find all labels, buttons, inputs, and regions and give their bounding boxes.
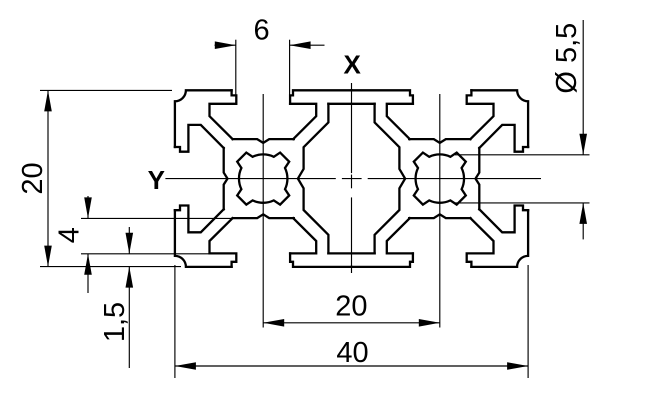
wire right module vertical centerline	[439, 94, 441, 328]
wire left slot upper lip + rib wall (top-left)	[175, 125, 224, 152]
wire right slot lower lip + rib wall (bottom-right)	[479, 206, 528, 233]
wire top slot floor, right module, with center V-notch	[409, 139, 470, 143]
wire central cavity east wall with mid V-notch	[375, 104, 406, 254]
wire X centerline upper segment	[351, 83, 353, 173]
arrowhead dim Ø5,5 bottom	[579, 203, 587, 224]
arrowhead dim 20-bottom left	[263, 319, 284, 327]
wire extension line 20-left bottom	[40, 266, 181, 268]
wire left module vertical centerline	[262, 94, 264, 328]
wire center tab underside left + NE rib of left module	[290, 104, 316, 139]
wire extension line 4 top (slot floor level)	[81, 217, 232, 219]
wire dimension line 1,5 lower tail	[128, 267, 130, 368]
wire right slot upper lip + rib wall (top-right)	[479, 125, 528, 152]
wire top slot floor, left module, with center V-notch	[233, 139, 294, 143]
wire bottom slot left lip + rib wall (bottom-left)	[210, 218, 237, 267]
top-left corner outer face with radius	[175, 90, 232, 147]
wire extension line 6 left	[235, 40, 237, 96]
wire bottom slot right lip + rib wall (bottom-right, right module)	[467, 218, 494, 267]
wire top slot left lip + rib wall (top-left)	[210, 90, 237, 139]
wire bottom slot floor, right module, with center V-notch	[409, 214, 470, 218]
svg-text:20: 20	[335, 291, 367, 323]
wire center tab underside middle	[328, 103, 374, 105]
wire left side slot floor with V-notch	[224, 148, 228, 209]
svg-text:X: X	[344, 50, 362, 80]
wire bottom tab underside right + SW rib of right module	[387, 218, 413, 253]
wire dimension line 20 bottom	[263, 322, 440, 324]
arrowhead dim 40 right	[507, 362, 528, 370]
arrowhead dim Ø5,5 top	[579, 134, 587, 155]
arrowhead dim 20-bottom right	[419, 319, 440, 327]
wire central cavity west wall with mid V-notch	[298, 104, 329, 254]
wire center tab underside right + NW rib of right module	[387, 104, 413, 139]
wire dimension line 1,5 upper tail	[128, 227, 130, 254]
wire extension line Ø5,5 bottom	[455, 202, 590, 204]
wire Y centerline right segment	[368, 178, 541, 180]
svg-text:1,5: 1,5	[99, 302, 131, 342]
arrowhead dim 4 bottom	[84, 254, 92, 275]
wire dimension line Ø5,5 lower	[582, 203, 584, 240]
bottom-right corner outer face with radius	[471, 210, 528, 267]
wire extension line 4 bottom (lip underside level)	[81, 253, 209, 255]
bottom-left corner outer face with radius	[175, 210, 232, 267]
arrowhead dim 4 top	[84, 197, 92, 218]
arrowhead dim 6 right	[290, 41, 311, 49]
wire dimension line Ø5,5 upper	[582, 20, 584, 155]
wire bottom face left + bottom tab left lip	[290, 253, 351, 267]
svg-text:4: 4	[54, 227, 86, 243]
svg-text:Y: Y	[148, 165, 165, 195]
wire left slot lower lip + rib wall (bottom-left)	[175, 206, 224, 233]
wire dimension line 6 left part	[215, 44, 236, 46]
svg-text:20: 20	[17, 162, 49, 194]
wire extension line 40 left	[174, 265, 176, 378]
wire bottom slot floor, left module, with center V-notch	[233, 214, 294, 218]
arrowhead dim 40 left	[175, 362, 196, 370]
svg-text:40: 40	[336, 337, 368, 369]
svg-text:Ø 5,5: Ø 5,5	[551, 23, 583, 94]
wire extension line 6 right	[289, 40, 291, 96]
arrowhead dim 20-left top	[44, 90, 52, 111]
wire extension line 20-left top	[40, 89, 172, 91]
wire bottom tab underside left + SE rib of left module	[290, 218, 316, 253]
wire bottom tab underside middle	[328, 252, 374, 254]
wire top slot right lip + rib wall (top-right, right module)	[467, 90, 494, 139]
wire Y centerline left segment	[165, 178, 335, 180]
wire bottom face right + bottom tab right lip	[352, 253, 413, 267]
wire extension line 40 right	[527, 265, 529, 378]
arrowhead dim 6 left	[215, 41, 236, 49]
wire X centerline center tick	[351, 175, 353, 189]
right module screw channel bore Ø5.5 with corner notches	[414, 153, 466, 205]
svg-text:6: 6	[254, 15, 270, 47]
wire dimension line 6 right part	[290, 44, 325, 46]
arrowhead dim 20-left bottom	[44, 246, 52, 267]
wire dimension line 4 lower tail	[87, 254, 89, 293]
wire extension line Ø5,5 top	[455, 154, 590, 156]
arrowhead dim 1,5 bottom	[126, 267, 134, 288]
wire top face left + center tab left lip	[290, 90, 351, 104]
wire X centerline lower segment	[351, 197, 353, 273]
wire Y centerline center tick	[342, 178, 362, 180]
wire dimension line 20 left	[47, 90, 49, 266]
top-right corner outer face with radius	[471, 90, 528, 147]
arrowhead dim 1,5 top	[126, 233, 134, 254]
wire top face right + center tab right lip	[352, 90, 413, 104]
left module screw channel bore Ø5.5 with corner notches	[237, 153, 289, 205]
wire dimension line 4 upper tail	[87, 196, 89, 218]
wire right side slot floor with V-notch	[476, 148, 480, 209]
wire dimension line 40	[175, 365, 528, 367]
